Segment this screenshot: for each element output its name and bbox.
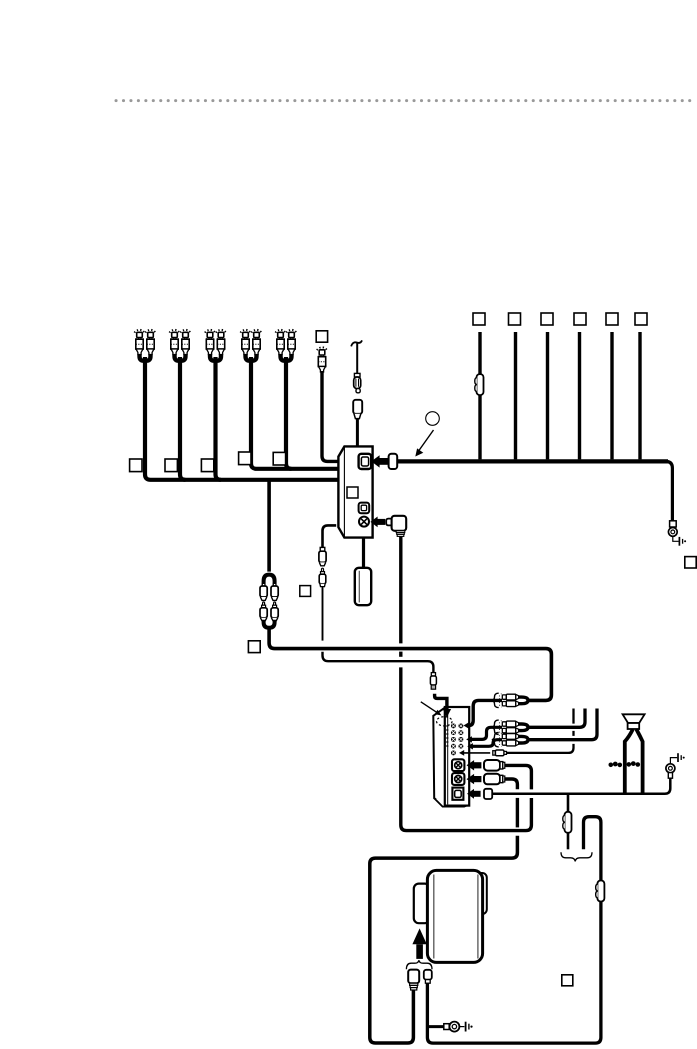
speaker wire left bbox=[625, 729, 633, 792]
row1 arrowhead bbox=[464, 722, 469, 728]
single RCA plug bbox=[317, 347, 327, 372]
dashed insert ellipse bbox=[437, 717, 453, 726]
RCA pair to row1 bbox=[499, 694, 528, 707]
chassis screw symbol speaker bbox=[678, 753, 685, 762]
dotted separator line bbox=[116, 99, 695, 102]
hideaway unit U1 body bbox=[338, 446, 372, 537]
inline connector on hook cable bbox=[596, 881, 605, 902]
long cord to svideo plug1 bbox=[401, 667, 532, 830]
thin cord resumes to plug bbox=[323, 652, 434, 673]
minijack plug bbox=[493, 750, 507, 756]
remote plug bbox=[484, 789, 492, 799]
extension male plug R bbox=[271, 602, 278, 621]
ground branch bottom bbox=[427, 1025, 443, 1028]
extension female jack R bbox=[271, 583, 278, 600]
pair3 cable stub up bbox=[528, 709, 597, 740]
power lead wire 1 bbox=[478, 332, 481, 459]
antenna plug male bbox=[354, 373, 361, 392]
RCA pair cable 3 (plugs) bbox=[205, 330, 226, 361]
svideo socket 1 bbox=[452, 759, 464, 771]
head unit entry arrow bbox=[443, 709, 451, 717]
connect brace bbox=[561, 852, 592, 861]
ground link to chassis bbox=[673, 536, 679, 541]
row1 cord elbow bbox=[469, 700, 503, 725]
head unit foot bbox=[434, 798, 468, 806]
brace pair2 bbox=[492, 720, 499, 734]
monitor right tab bbox=[476, 873, 487, 914]
svideo plug2 cable upper bbox=[504, 779, 517, 789]
arrow into antenna socket bbox=[371, 455, 389, 467]
wire pair2 bbox=[180, 357, 185, 480]
crossing dash bbox=[399, 652, 402, 657]
RCA pair to row3 bbox=[499, 721, 528, 734]
minijack shaft bbox=[464, 752, 490, 754]
plugs brace bbox=[406, 960, 432, 969]
svideo plug 1 bbox=[484, 760, 505, 771]
cord from unit bottom chamfer bbox=[323, 525, 337, 547]
small socket on unit bbox=[359, 503, 370, 514]
round power socket on unit bbox=[359, 517, 369, 527]
power lead wire 5 bbox=[610, 332, 613, 459]
head unit rear panel bbox=[445, 707, 469, 806]
speaker horn bbox=[623, 714, 645, 723]
row3 arrowhead bbox=[466, 736, 472, 742]
RCA pair cable 2 (plugs) bbox=[170, 330, 191, 361]
inline plug upper (male down) bbox=[319, 547, 326, 565]
label square ground lead bbox=[685, 557, 696, 568]
arrow into svideo1 bbox=[467, 760, 482, 770]
antenna mast bbox=[356, 343, 358, 374]
power bus corner down bbox=[666, 461, 672, 520]
extension tap wire bbox=[267, 481, 271, 572]
svideo plug2 cable mid bbox=[516, 798, 519, 828]
label square pair4 bbox=[239, 452, 251, 465]
head unit side face bbox=[433, 708, 445, 805]
splice left bbox=[609, 762, 623, 768]
antenna cable into unit bbox=[356, 419, 359, 447]
bottom ground link bbox=[459, 1026, 464, 1028]
speaker wire right bbox=[636, 729, 642, 792]
row4 arrowhead bbox=[467, 743, 473, 749]
right-angle power plug bbox=[386, 516, 406, 537]
panel inner edge bbox=[447, 708, 449, 804]
extension female jack L bbox=[260, 583, 267, 600]
power lead wire 3 bbox=[546, 332, 549, 459]
row4 cord elbow bbox=[473, 740, 503, 747]
monitor power plug bbox=[408, 970, 419, 990]
label square pair1 bbox=[130, 459, 142, 472]
speaker ground ring bbox=[666, 764, 675, 773]
remote/speaker bus line bbox=[492, 778, 670, 793]
label square in unit bbox=[347, 487, 358, 498]
RCA pair cable 1 (plugs) bbox=[135, 330, 156, 361]
label square single plug bbox=[316, 331, 327, 342]
arrow into svideo2 bbox=[467, 774, 482, 784]
bottom socket on panel bbox=[452, 788, 463, 800]
monitor body bbox=[427, 870, 482, 962]
monitor inner line right bbox=[477, 875, 479, 959]
antenna socket female bbox=[353, 400, 362, 419]
power lead wire 6 bbox=[638, 332, 641, 459]
RCA pair to row4 bbox=[499, 733, 528, 746]
extension Y split bbox=[264, 575, 275, 587]
power lead wire 2 bbox=[514, 332, 517, 459]
plug into head unit top bbox=[430, 673, 436, 690]
power lead wire 4 bbox=[578, 332, 581, 459]
speaker body bbox=[628, 723, 640, 729]
label square pair3 bbox=[201, 459, 213, 472]
bottom ground crimp bbox=[444, 1024, 449, 1030]
head unit entry elbow bbox=[435, 694, 447, 710]
inline plug lower (male up) bbox=[319, 568, 326, 586]
monitor ground plug bbox=[424, 970, 432, 983]
monitor loop cable bbox=[370, 836, 518, 1043]
label square hook cable bbox=[562, 975, 573, 986]
long cord from right-angle plug bbox=[399, 536, 402, 643]
dangling connector cover bbox=[362, 538, 365, 569]
output jacks rows bbox=[451, 723, 456, 728]
callout circle bbox=[426, 412, 440, 426]
RCA pair cable 5 (plugs) bbox=[276, 330, 297, 361]
speaker ground link bbox=[670, 758, 677, 764]
wire pair1 to lower bus bbox=[145, 357, 340, 480]
extension Y merge bbox=[264, 620, 275, 628]
wire pair5 bbox=[286, 357, 291, 469]
monitor left tab bbox=[414, 884, 430, 924]
wire pair3 bbox=[216, 357, 221, 480]
hideaway unit fold line bbox=[343, 447, 345, 537]
wire single plug bbox=[322, 371, 340, 461]
inline connector on drop bbox=[563, 812, 572, 833]
arrow into bottom socket bbox=[467, 789, 481, 799]
pair2 cable stub up bbox=[528, 709, 585, 728]
panel ticks bbox=[446, 726, 449, 746]
row3 cord elbow bbox=[472, 727, 503, 739]
monitor inner line left bbox=[433, 875, 435, 959]
bottom ground ring bbox=[449, 1022, 459, 1032]
antenna mast hook bbox=[351, 340, 362, 346]
chassis screw symbol bottom bbox=[466, 1022, 473, 1032]
wire pair4 to upper bus bbox=[251, 357, 340, 469]
extension male plug L bbox=[260, 602, 267, 621]
arrow into power socket bbox=[370, 517, 385, 528]
splice right bbox=[627, 761, 641, 767]
antenna lead plug at unit bbox=[389, 454, 398, 469]
label square pair2 bbox=[165, 459, 177, 472]
label square extension upper bbox=[300, 586, 311, 597]
minijack arrowhead row5 bbox=[459, 750, 464, 756]
label square extension corner bbox=[248, 641, 260, 653]
fuse holder on lead 1 bbox=[475, 374, 484, 395]
label square pair5 bbox=[273, 452, 285, 465]
callout arrow bbox=[415, 430, 433, 457]
thin insert arrow bbox=[421, 702, 442, 716]
hook cable bbox=[427, 817, 601, 1043]
speaker ground crimp bbox=[668, 773, 672, 779]
ground ring terminal bbox=[668, 528, 677, 537]
power bus line to unit bbox=[397, 459, 668, 463]
svideo plug1 cable upper bbox=[504, 765, 531, 789]
main AV cord to head unit bbox=[269, 627, 551, 701]
antenna input socket on unit bbox=[359, 454, 372, 469]
chassis screw symbol bbox=[679, 537, 686, 546]
thin cord down bbox=[322, 587, 324, 641]
brace pair3 bbox=[492, 733, 499, 747]
brace pair1 bbox=[492, 693, 499, 707]
RCA pair cable 4 (plugs) bbox=[241, 330, 262, 361]
insert up arrow bbox=[412, 928, 426, 958]
minijack cable bbox=[507, 709, 574, 753]
svideo socket 2 bbox=[452, 773, 464, 785]
svideo plug 2 bbox=[484, 774, 505, 785]
power drop wire bbox=[567, 794, 570, 850]
label squares power leads row bbox=[473, 313, 485, 325]
ground lead cap bbox=[670, 521, 677, 527]
